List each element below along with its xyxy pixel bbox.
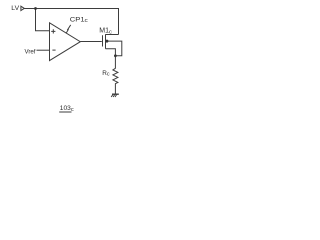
svg-text:LV: LV <box>11 5 19 12</box>
svg-text:Rc: Rc <box>102 70 110 78</box>
svg-text:M1c: M1c <box>99 28 112 36</box>
svg-text:103c: 103c <box>60 105 74 113</box>
svg-text:CP1c: CP1c <box>70 17 88 25</box>
svg-text:Vref: Vref <box>25 50 36 56</box>
